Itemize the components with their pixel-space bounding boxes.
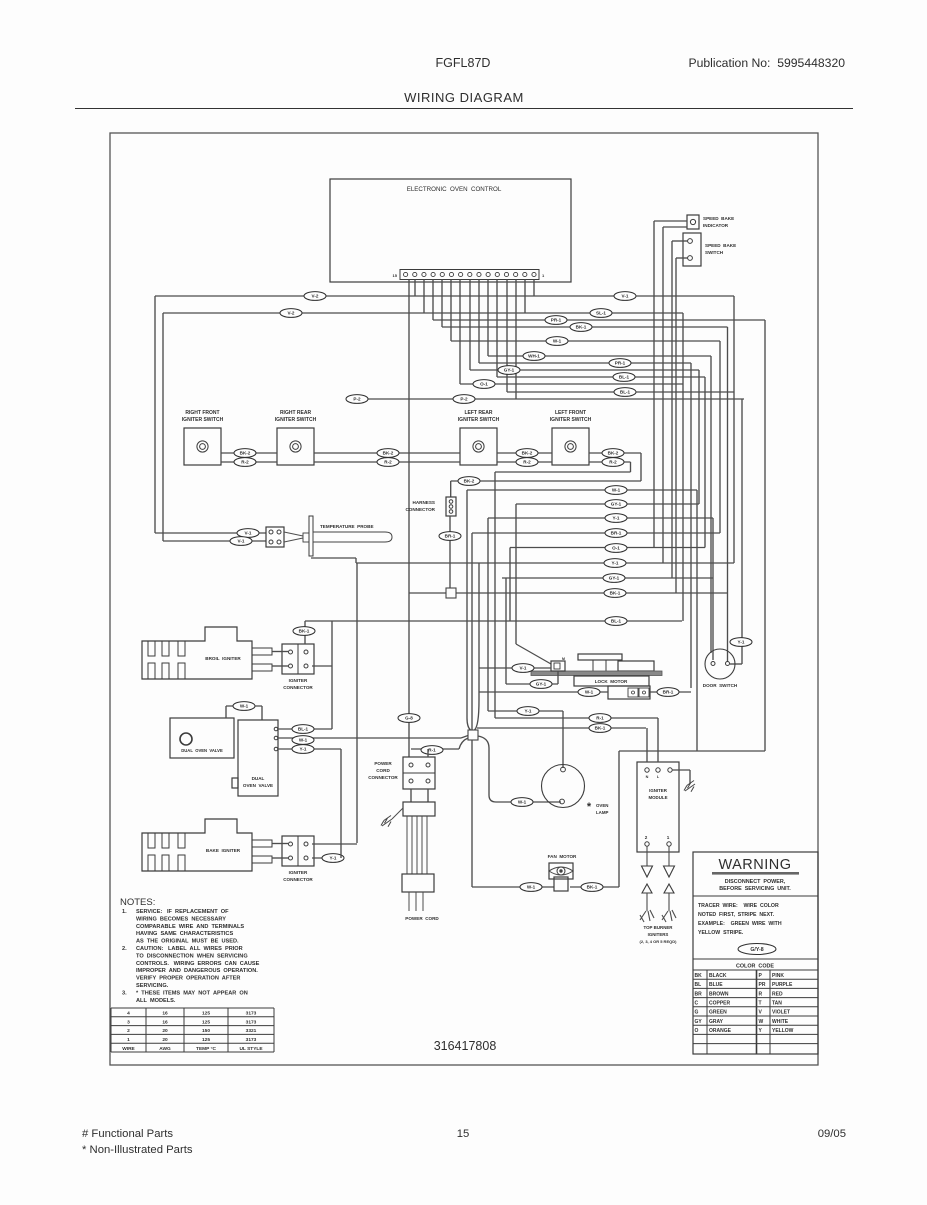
- wire speed bake indicator drop x654: [653, 221, 655, 548]
- svg-text:BAKE IGNITER: BAKE IGNITER: [206, 848, 241, 853]
- wire pin13 drop: [423, 280, 425, 314]
- svg-text:R-1: R-1: [596, 716, 604, 721]
- svg-text:GY-1: GY-1: [609, 576, 620, 581]
- svg-text:TOP BURNER: TOP BURNER: [644, 925, 674, 930]
- svg-text:3: 3: [127, 1019, 130, 1025]
- svg-text:C: C: [695, 1001, 699, 1007]
- svg-text:316417808: 316417808: [434, 1039, 497, 1053]
- junction node J2: [468, 730, 478, 740]
- svg-text:15: 15: [457, 1128, 470, 1140]
- svg-text:CONNECTOR: CONNECTOR: [368, 775, 398, 780]
- svg-text:R-2: R-2: [609, 460, 617, 465]
- door switch S7: [705, 649, 735, 679]
- wire W-1 fan feed y887: [472, 886, 554, 888]
- wire BK-2 net y453: [221, 452, 277, 454]
- svg-text:Y-1: Y-1: [330, 856, 337, 861]
- svg-text:Publication No: 5995448320: Publication No: 5995448320: [688, 56, 845, 70]
- svg-text:IGNITERS: IGNITERS: [648, 932, 669, 937]
- svg-text:COLOR CODE: COLOR CODE: [736, 964, 774, 970]
- svg-text:CONNECTOR: CONNECTOR: [283, 685, 313, 690]
- svg-text:O-1: O-1: [612, 546, 620, 551]
- svg-text:V-2: V-2: [312, 294, 319, 299]
- svg-text:BL-1: BL-1: [619, 375, 630, 380]
- wire left feeder x163 to temp probe: [162, 313, 164, 541]
- wire PR-1 net y320: [433, 319, 765, 321]
- wire W-1 valve to junction y738: [278, 737, 461, 739]
- svg-text:LEFT FRONT: LEFT FRONT: [555, 410, 586, 416]
- svg-text:EXAMPLE: GREEN WIRE WITH: EXAMPLE: GREEN WIRE WITH: [698, 921, 782, 927]
- wire R-1 net y718: [495, 717, 658, 719]
- svg-text:W-1: W-1: [612, 488, 621, 493]
- svg-text:Y-1: Y-1: [525, 709, 532, 714]
- svg-text:R-1: R-1: [428, 748, 436, 753]
- wire Y-1 lamp top feed y711: [488, 710, 563, 712]
- top burner igniters E3 E4: [640, 911, 646, 920]
- svg-text:IGNITER: IGNITER: [289, 678, 308, 683]
- svg-text:G/Y-8: G/Y-8: [750, 947, 763, 953]
- wire broil connector right y666: [312, 665, 332, 667]
- svg-text:WARNING: WARNING: [718, 857, 791, 873]
- svg-text:BK-2: BK-2: [383, 451, 394, 456]
- svg-text:WHITE: WHITE: [772, 1019, 789, 1025]
- svg-text:TEMPERATURE PROBE: TEMPERATURE PROBE: [320, 524, 374, 529]
- wire Y-1 valve y749: [278, 748, 341, 750]
- wire O-1 net y547: [510, 547, 705, 549]
- svg-text:AS THE ORIGINAL MUST BE U: AS THE ORIGINAL MUST BE USED.: [136, 939, 239, 945]
- wire pin4 drop: [506, 280, 508, 393]
- wire bake connector right y844: [312, 843, 357, 845]
- igniter connector P3 (broil): [282, 644, 314, 674]
- svg-text:BR-1: BR-1: [611, 531, 622, 536]
- svg-text:IGNITER: IGNITER: [649, 788, 668, 793]
- wire pin10 drop: [450, 280, 452, 342]
- svg-text:150: 150: [202, 1028, 210, 1034]
- svg-text:4: 4: [127, 1011, 130, 1017]
- svg-text:R-2: R-2: [384, 460, 392, 465]
- main diagram border: [110, 133, 818, 1065]
- svg-text:NOTED FIRST, STRIPE NEXT.: NOTED FIRST, STRIPE NEXT.: [698, 912, 775, 918]
- wire vertical x332 valve BL-1: [331, 621, 333, 729]
- svg-text:DISCONNECT POWER,: DISCONNECT POWER,: [725, 879, 786, 885]
- junction node J1: [446, 588, 456, 598]
- wire GY-1 net y504: [516, 503, 699, 505]
- wire GY-1 net y370: [470, 369, 699, 371]
- wire speed bake switch drop x676: [675, 258, 677, 593]
- wire bundle vertical x734: [733, 296, 735, 563]
- wire probe bar to Y-1 net jog: [311, 557, 356, 559]
- svg-text:IMPROPER AND DANGEROUS OPER: IMPROPER AND DANGEROUS OPERATION.: [136, 968, 258, 974]
- svg-text:OVEN: OVEN: [596, 803, 608, 808]
- svg-text:3321: 3321: [246, 1028, 257, 1034]
- svg-text:BLACK: BLACK: [709, 973, 727, 979]
- svg-text:IGNITER SWITCH: IGNITER SWITCH: [550, 417, 592, 423]
- wire Y-1 net y563: [356, 562, 734, 564]
- svg-text:BEFORE SERVICING UNIT.: BEFORE SERVICING UNIT.: [719, 886, 791, 892]
- wire V-2/SL-1 net y313: [163, 312, 683, 314]
- wire pin11 drop: [441, 280, 443, 328]
- wire O-1 drop x510: [509, 548, 511, 622]
- svg-text:R-2: R-2: [523, 460, 531, 465]
- right rear igniter switch S3: [277, 428, 314, 465]
- wire V-1 probe feed y541: [163, 540, 266, 542]
- wire GY-1 net y578: [502, 577, 713, 579]
- temperature probe RT1: [266, 527, 284, 547]
- wire R-2 run y472: [495, 471, 631, 473]
- svg-text:LOCK MOTOR: LOCK MOTOR: [595, 679, 628, 684]
- svg-text:BK-1: BK-1: [587, 885, 598, 890]
- svg-text:HARNESS: HARNESS: [413, 500, 435, 505]
- svg-text:W-1: W-1: [299, 738, 308, 743]
- svg-text:AWG: AWG: [159, 1046, 171, 1052]
- harness connector P2: [450, 481, 452, 497]
- svg-text:BROIL IGNITER: BROIL IGNITER: [205, 656, 241, 661]
- svg-text:BK-2: BK-2: [522, 451, 533, 456]
- svg-text:OVEN VALVE: OVEN VALVE: [243, 783, 273, 788]
- svg-text:1: 1: [667, 835, 670, 840]
- wire W-1 net y341: [451, 340, 720, 342]
- wire GY-1 drop x516 to lock motor connector: [515, 504, 517, 644]
- svg-text:Y-1: Y-1: [300, 747, 307, 752]
- svg-text:BLUE: BLUE: [709, 982, 723, 988]
- svg-text:GY-1: GY-1: [611, 502, 622, 507]
- wire pin15 drop to power cord connector: [408, 280, 410, 758]
- svg-text:SERVICE: IF REPLACEMENT OF: SERVICE: IF REPLACEMENT OF: [136, 909, 229, 915]
- wire BL-1 net y392: [507, 391, 734, 393]
- wire P-2 net y399: [356, 398, 744, 400]
- wire bundle vertical x697: [696, 490, 698, 751]
- wire harness to junction x450: [449, 516, 451, 588]
- wire module feed y751: [619, 750, 765, 752]
- svg-text:GRAY: GRAY: [709, 1019, 724, 1025]
- wire pin7 drop: [478, 280, 480, 364]
- wire J2 down to fan motor: [471, 740, 473, 887]
- svg-text:15: 15: [393, 273, 398, 278]
- svg-text:RED: RED: [772, 991, 783, 997]
- svg-text:V-2: V-2: [288, 311, 295, 316]
- wire bundle vertical x699: [698, 370, 700, 504]
- wire R-1 power feed: [421, 746, 443, 755]
- igniter connector P4 (bake): [282, 836, 314, 866]
- svg-text:N: N: [646, 775, 649, 779]
- wire Y-1 drop x488: [487, 518, 489, 711]
- svg-text:IGNITER: IGNITER: [289, 870, 308, 875]
- svg-text:COPPER: COPPER: [709, 1001, 731, 1007]
- svg-text:3.: 3.: [122, 990, 127, 996]
- wire BL-1 valve y729: [278, 728, 332, 730]
- svg-text:16: 16: [162, 1011, 168, 1017]
- svg-text:BROWN: BROWN: [709, 991, 729, 997]
- power cord ground: [392, 808, 403, 819]
- wire W-1 lock y692: [479, 691, 608, 693]
- svg-text:GY-1: GY-1: [536, 682, 547, 687]
- svg-text:ELECTRONIC OVEN CONTROL: ELECTRONIC OVEN CONTROL: [407, 186, 502, 193]
- svg-text:W-1: W-1: [240, 704, 249, 709]
- svg-text:CORD: CORD: [376, 768, 390, 773]
- svg-text:BK-2: BK-2: [464, 479, 475, 484]
- svg-text:P-2: P-2: [353, 397, 361, 402]
- svg-text:3173: 3173: [246, 1037, 257, 1043]
- svg-text:SL-1: SL-1: [596, 311, 606, 316]
- EOC connector pin strip P1: [400, 270, 539, 280]
- svg-text:Y-1: Y-1: [613, 516, 620, 521]
- svg-text:W-1: W-1: [527, 885, 536, 890]
- svg-text:3173: 3173: [246, 1019, 257, 1025]
- wire pin5 drop: [496, 280, 498, 378]
- svg-text:SPEED BAKE: SPEED BAKE: [705, 243, 736, 248]
- wire pin8 drop: [469, 280, 471, 371]
- wire BK-2 harness feed y481: [451, 480, 641, 482]
- svg-text:DUAL OVEN VALVE: DUAL OVEN VALVE: [181, 748, 223, 753]
- wire speed bake drop x663: [662, 227, 664, 563]
- svg-text:VIOLET: VIOLET: [772, 1010, 790, 1016]
- wire V-1 lock motor y668: [479, 667, 551, 669]
- svg-text:20: 20: [162, 1037, 168, 1043]
- svg-text:SERVICING.: SERVICING.: [136, 983, 169, 989]
- wire vertical x479 to junction J2: [478, 563, 480, 700]
- power cord connector P5: [403, 757, 435, 789]
- svg-text:FAN MOTOR: FAN MOTOR: [548, 854, 577, 859]
- lock motor switch S6: [608, 686, 650, 699]
- power cord strain relief: [410, 789, 412, 802]
- svg-text:TAN: TAN: [772, 1001, 782, 1007]
- svg-text:BK-1: BK-1: [595, 726, 606, 731]
- svg-text:1.: 1.: [122, 909, 127, 915]
- svg-text:# Functional Parts: # Functional Parts: [82, 1128, 173, 1140]
- svg-text:UL STYLE: UL STYLE: [239, 1046, 263, 1052]
- svg-text:2: 2: [127, 1028, 130, 1034]
- svg-text:P-2: P-2: [460, 397, 468, 402]
- wire pin9 drop: [459, 280, 461, 385]
- svg-text:BL-1: BL-1: [611, 619, 622, 624]
- wire R-2 vertical x495: [494, 472, 496, 718]
- svg-text:BR-1: BR-1: [445, 534, 456, 539]
- svg-text:O: O: [695, 1028, 699, 1034]
- wire BR-1 drop to junction J2: [471, 533, 473, 730]
- wire pin14 drop: [414, 280, 416, 297]
- svg-text:3173: 3173: [246, 1011, 257, 1017]
- svg-text:* Non-Illustrated Parts: * Non-Illustrated Parts: [82, 1144, 193, 1156]
- wire vertical x357 bake feed: [356, 563, 358, 843]
- svg-text:BL: BL: [695, 982, 702, 988]
- wire pin12 drop: [432, 280, 434, 321]
- wire BR-1 lock y692: [650, 691, 691, 693]
- svg-text:SPEED BAKE: SPEED BAKE: [703, 216, 734, 221]
- svg-text:* THESE ITEMS MAY NOT APP: * THESE ITEMS MAY NOT APPEAR ON: [136, 990, 248, 996]
- wire R-2 net y462: [221, 461, 277, 463]
- svg-text:BL-1: BL-1: [298, 727, 309, 732]
- wire module ground: [672, 769, 690, 771]
- wire W-1 drop to junction J2: [466, 490, 468, 718]
- wire gauge table: [111, 1007, 274, 1009]
- svg-text:Y-1: Y-1: [612, 561, 619, 566]
- broil igniter E1: [142, 627, 252, 679]
- wire bundle vertical x691: [690, 363, 692, 688]
- svg-text:O-1: O-1: [480, 382, 488, 387]
- right front igniter switch S2: [184, 428, 221, 465]
- svg-text:BK-2: BK-2: [240, 451, 251, 456]
- wire bundle vertical x720: [719, 341, 721, 533]
- svg-text:W-1: W-1: [585, 690, 594, 695]
- wire pin3 drop: [515, 280, 517, 400]
- wire BK-2 drop x641: [640, 453, 642, 481]
- wire left feeder x155 to temp probe: [154, 296, 156, 533]
- svg-text:V-1: V-1: [622, 294, 629, 299]
- svg-text:WIRING BECOMES NECESSARY: WIRING BECOMES NECESSARY: [136, 916, 226, 922]
- svg-text:BL-1: BL-1: [620, 390, 631, 395]
- svg-text:IGNITER SWITCH: IGNITER SWITCH: [458, 417, 500, 423]
- svg-text:TEMP °C: TEMP °C: [196, 1046, 216, 1052]
- wire bundle vertical x705: [704, 377, 706, 548]
- svg-text:YELLOW: YELLOW: [772, 1028, 794, 1034]
- svg-text:RIGHT REAR: RIGHT REAR: [280, 410, 312, 416]
- svg-text:BK-2: BK-2: [608, 451, 619, 456]
- wire bundle vertical x711: [710, 356, 712, 653]
- svg-text:CONTROLS. WIRING ERRORS CA: CONTROLS. WIRING ERRORS CAN CAUSE: [136, 961, 260, 967]
- svg-text:ALL MODELS.: ALL MODELS.: [136, 998, 176, 1004]
- speed bake indicator DS1: [687, 215, 699, 229]
- svg-text:SWITCH: SWITCH: [705, 250, 724, 255]
- svg-text:PURPLE: PURPLE: [772, 982, 793, 988]
- wire BR-1 net y533: [472, 532, 720, 534]
- wire bundle vertical x727 to door switch: [727, 327, 729, 662]
- warning box: [693, 852, 818, 1054]
- svg-text:IGNITER SWITCH: IGNITER SWITCH: [182, 417, 224, 423]
- wire BK-1 broil connector feed x305: [304, 621, 306, 644]
- wire pin1 drop: [533, 280, 535, 297]
- svg-text:NOTES:: NOTES:: [120, 897, 155, 908]
- svg-text:INDICATOR: INDICATOR: [703, 223, 729, 228]
- wire V-2/V-1 net y296: [155, 295, 734, 297]
- svg-text:BK: BK: [695, 973, 703, 979]
- power cord plug: [402, 874, 434, 892]
- svg-text:RIGHT FRONT: RIGHT FRONT: [185, 410, 219, 416]
- wire speed bake switch drop x672: [671, 241, 673, 578]
- svg-text:V-1: V-1: [520, 666, 527, 671]
- power cord prongs: [408, 892, 410, 911]
- svg-text:TRACER WIRE: WIRE COLOR: TRACER WIRE: WIRE COLOR: [698, 903, 779, 909]
- oven lamp DS2: [542, 765, 585, 808]
- svg-text:CAUTION: LABEL ALL WIRES: CAUTION: LABEL ALL WIRES PRIOR: [136, 946, 243, 952]
- wire bundle vertical x742 to door switch: [741, 399, 743, 664]
- svg-text:Y-1: Y-1: [738, 640, 745, 645]
- svg-text:LEFT REAR: LEFT REAR: [464, 410, 492, 416]
- wire W-1 net y490: [467, 489, 697, 491]
- wire R-2 drop x630: [630, 462, 632, 472]
- wire W-1 valve top y706: [226, 705, 262, 707]
- wire J2 to oven lamp: [478, 736, 561, 802]
- wire BL-1 net y621: [305, 620, 682, 622]
- svg-text:DUAL: DUAL: [252, 776, 265, 781]
- svg-text:ORANGE: ORANGE: [709, 1028, 732, 1034]
- left front igniter switch S5: [552, 428, 589, 465]
- tracer example oval G/Y-8: [738, 944, 776, 955]
- svg-text:WIRING DIAGRAM: WIRING DIAGRAM: [404, 90, 524, 105]
- svg-text:VERIFY PROPER OPERATION AFT: VERIFY PROPER OPERATION AFTER: [136, 976, 240, 982]
- svg-text:V-1: V-1: [238, 539, 245, 544]
- svg-text:HAVING SAME CHARACTERISTICS: HAVING SAME CHARACTERISTICS: [136, 931, 233, 937]
- wire BK-1 fan to x619: [570, 886, 619, 888]
- top burner igniter arrows: [642, 884, 652, 893]
- svg-text:BK-1: BK-1: [299, 629, 310, 634]
- wire BK-1 net y728: [477, 727, 646, 729]
- wire vertical x619 fan to module: [618, 751, 620, 887]
- wire bundle vertical x765: [764, 320, 766, 751]
- svg-text:2: 2: [645, 835, 648, 840]
- wire BK-1 net y327: [442, 326, 728, 328]
- svg-text:09/05: 09/05: [818, 1128, 846, 1140]
- wire pin6 drop: [487, 280, 489, 357]
- svg-text:R: R: [759, 991, 763, 997]
- svg-text:(2, 3, 4 OR 5 REQD): (2, 3, 4 OR 5 REQD): [640, 939, 678, 944]
- svg-text:T: T: [759, 1001, 762, 1007]
- wire BK-1 net y593 junction feed: [409, 592, 728, 594]
- svg-text:BK-1: BK-1: [610, 591, 621, 596]
- svg-text:DOOR SWITCH: DOOR SWITCH: [703, 683, 738, 688]
- svg-text:1: 1: [127, 1037, 130, 1043]
- svg-text:W-1: W-1: [553, 339, 562, 344]
- svg-text:16: 16: [162, 1019, 168, 1025]
- svg-text:BK-1: BK-1: [576, 325, 587, 330]
- wire GY-1 drop x506 to lock motor: [505, 578, 507, 684]
- svg-text:G-8: G-8: [405, 716, 413, 721]
- svg-text:COMPARABLE WIRE AND TERMINA: COMPARABLE WIRE AND TERMINALS: [136, 924, 244, 930]
- wire V-1 probe feed y533: [155, 532, 266, 534]
- svg-text:PINK: PINK: [772, 973, 784, 979]
- svg-text:2.: 2.: [122, 946, 127, 952]
- svg-text:IGNITER SWITCH: IGNITER SWITCH: [275, 417, 317, 423]
- wire GY-1 lock y684: [506, 683, 558, 685]
- svg-text:20: 20: [162, 1028, 168, 1034]
- svg-text:125: 125: [202, 1037, 210, 1043]
- svg-text:CONNECTOR: CONNECTOR: [283, 877, 313, 882]
- svg-text:WIRE: WIRE: [122, 1046, 135, 1052]
- wire bundle vertical x713 to door switch: [712, 518, 714, 660]
- svg-text:BR: BR: [695, 991, 703, 997]
- svg-text:V-1: V-1: [245, 531, 252, 536]
- svg-text:POWER: POWER: [374, 761, 392, 766]
- dual oven valve (right) V2: [238, 720, 278, 796]
- svg-text:LAMP: LAMP: [596, 810, 609, 815]
- svg-text:TO DISCONNECTION WHEN SERVI: TO DISCONNECTION WHEN SERVICING: [136, 953, 248, 959]
- wire pin2 drop: [524, 280, 526, 314]
- wire J2 to power connector R-1: [459, 738, 468, 749]
- svg-text:GREEN: GREEN: [709, 1010, 727, 1016]
- svg-text:G: G: [695, 1010, 699, 1016]
- wire Y-1 net y518: [488, 517, 713, 519]
- svg-text:W-1: W-1: [518, 800, 527, 805]
- dual oven valve (left) V1: [170, 718, 234, 758]
- wire O-1 net y384: [460, 383, 683, 385]
- svg-text:GY: GY: [695, 1019, 703, 1025]
- svg-text:WH-1: WH-1: [528, 354, 540, 359]
- svg-text:GY-1: GY-1: [504, 368, 515, 373]
- svg-text:PR: PR: [759, 982, 766, 988]
- svg-text:125: 125: [202, 1019, 210, 1025]
- electronic oven control U1: [330, 179, 571, 282]
- bake igniter E2: [142, 819, 252, 871]
- speed bake switch S1: [683, 233, 701, 266]
- svg-text:BR-1: BR-1: [663, 690, 674, 695]
- svg-text:PR-1: PR-1: [615, 361, 626, 366]
- title underline rule: [75, 108, 853, 110]
- lock motor M1: [578, 654, 622, 660]
- wire PR-1 net y363: [479, 362, 691, 364]
- power cord wires: [406, 816, 408, 874]
- svg-text:POWER CORD: POWER CORD: [405, 916, 439, 921]
- wire BL-1 net y377: [497, 376, 705, 378]
- svg-text:FGFL87D: FGFL87D: [436, 56, 491, 70]
- svg-text:*: *: [587, 801, 592, 813]
